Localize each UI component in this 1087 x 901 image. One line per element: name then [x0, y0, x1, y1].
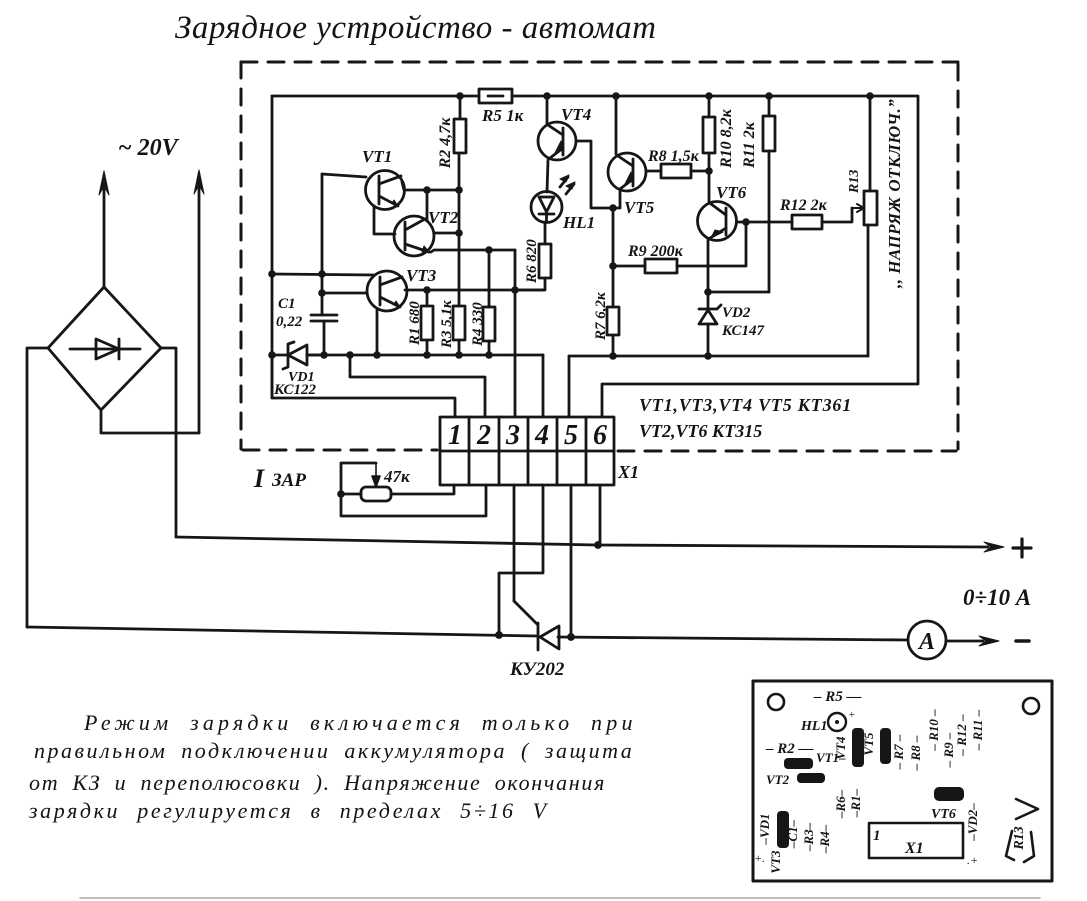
plus output line: [176, 537, 1004, 552]
svg-text:+: +: [848, 709, 855, 721]
svg-text:.+: .+: [967, 853, 978, 867]
svg-text:,, НАПРЯЖ ОТКЛЮЧ.”: ,, НАПРЯЖ ОТКЛЮЧ.”: [885, 99, 904, 289]
transistor VT5: [608, 96, 655, 217]
PCB solder plus marks: [754, 851, 978, 867]
minus line right section with arrow: [947, 636, 999, 646]
AC input arrow left: [99, 171, 109, 287]
wire bridge right vertex down to plus rail: [161, 348, 176, 537]
svg-text:–VD2–: –VD2–: [965, 803, 980, 842]
wire VT6 base to R12: [737, 221, 792, 224]
wire pin5 down to minus line: [570, 485, 573, 637]
wire pin2 from rail: [350, 355, 485, 417]
resistor R12 2k: [779, 197, 852, 229]
svg-text:4: 4: [534, 420, 549, 451]
node R10 top: [705, 92, 713, 100]
node VT1 collector to R2 line: [455, 186, 463, 194]
svg-text:2: 2: [476, 420, 491, 451]
node R11 top: [765, 92, 773, 100]
svg-text:R3 5,1к: R3 5,1к: [439, 300, 455, 349]
minus output line left section: [27, 627, 537, 636]
wire VT3 emitter down to rail: [376, 310, 379, 355]
node R9 riser to VT6 base: [742, 218, 750, 226]
potentiometer 47k: [337, 463, 486, 516]
pin numbers 1-6: [448, 420, 607, 451]
wire VT2 collector up to VT1 collector node: [426, 190, 429, 221]
svg-text:–R6–: –R6–: [833, 789, 848, 819]
potentiometer R13: [847, 96, 877, 356]
svg-text:КУ202: КУ202: [509, 659, 565, 680]
top supply rail: [272, 96, 918, 417]
resistor R10 8,2k: [703, 96, 735, 202]
svg-text:R1 680: R1 680: [407, 301, 423, 346]
PCB pad R2: [784, 758, 813, 769]
svg-text:VТ4: VТ4: [833, 736, 848, 760]
node VD2 bottom: [704, 352, 712, 360]
title Зарядное устройство - автомат: [175, 10, 656, 46]
svg-text:0÷10 А: 0÷10 А: [963, 585, 1031, 610]
node VT3 emitter: [373, 351, 381, 359]
wire pin3 riser: [514, 250, 517, 417]
svg-text:47к: 47к: [383, 467, 410, 486]
svg-text:VТ3: VТ3: [768, 850, 783, 874]
svg-text:VT2: VT2: [766, 772, 790, 787]
wire pin3 down to thyristor gate: [513, 485, 516, 601]
svg-text:–R3–: –R3–: [801, 822, 816, 852]
resistor R6 820: [515, 222, 551, 290]
PCB rotated labels top row: [833, 709, 985, 771]
bridge rectifier: [48, 287, 161, 410]
node R1 top: [423, 286, 431, 294]
node VT2 collector to R2 line: [455, 229, 463, 237]
svg-text:R2 4,7к: R2 4,7к: [437, 117, 454, 170]
svg-text:– R2 ––: – R2 ––: [765, 741, 814, 757]
wire VT2 emitter to pin3 drop: [431, 250, 515, 252]
wiper arrow into R13: [852, 204, 864, 212]
node pin2 riser: [346, 351, 354, 359]
svg-text:R9 200к: R9 200к: [627, 243, 684, 260]
wire VT4 base to R7 node: [576, 141, 613, 208]
node VT6 emitter R11 VD2: [704, 288, 712, 296]
label I ЗАР: [253, 464, 306, 493]
ammeter A: [908, 621, 946, 659]
wire bridge bottom vertex to right AC line: [101, 410, 199, 433]
wire R2 bottom to R3 top: [458, 153, 461, 306]
svg-text:R10 8,2к: R10 8,2к: [718, 108, 735, 169]
svg-text:6: 6: [593, 420, 607, 451]
svg-text:–VD1: –VD1: [757, 813, 772, 845]
PCB pad VT4: [852, 728, 864, 767]
svg-text:HL1: HL1: [800, 719, 827, 734]
wire VT4 emitter to HL1: [547, 160, 548, 192]
node R4 top: [485, 246, 493, 254]
wire VT6 emitter down: [707, 240, 710, 292]
svg-text:правильном подключении аккум: правильном подключении аккумулятора ( за…: [34, 738, 634, 763]
node R13 top: [866, 92, 874, 100]
node R8 R10 VT6 collector: [705, 167, 713, 175]
left vertical supply wire: [271, 96, 274, 398]
node pin5 wire to minus line: [567, 633, 575, 641]
wire pin5 from rail: [568, 356, 571, 417]
PCB mounting hole right: [1023, 698, 1039, 714]
PCB pad VT6: [934, 787, 964, 801]
svg-text:Режим зарядки включается то: Режим зарядки включается только при: [83, 710, 637, 735]
PCB X1 connector outline: [869, 823, 963, 858]
svg-text:А: А: [917, 629, 935, 655]
node left vertical bottom rail: [268, 351, 276, 359]
node R3 bottom: [455, 351, 463, 359]
wire VT5 emitter: [613, 189, 620, 208]
node VT4 collector: [543, 92, 551, 100]
node x322 y293: [318, 289, 326, 297]
transistor VT6: [698, 183, 747, 241]
node pin6 to plus line: [594, 541, 602, 549]
wire pin1 from left vertical: [272, 355, 455, 417]
svg-text:R13: R13: [847, 170, 862, 194]
resistor R11 2k: [741, 96, 775, 292]
wire VT3 collector line to pin3 riser and R6: [405, 289, 544, 292]
svg-text:VT6: VT6: [716, 183, 747, 202]
svg-text:~ 20V: ~ 20V: [118, 135, 180, 161]
resistor R3 5,1k: [439, 300, 465, 355]
bottom rail right piece: [569, 355, 868, 358]
plus sign: [1013, 539, 1031, 557]
LED HL1: [531, 175, 595, 232]
svg-text:КС147: КС147: [721, 323, 764, 339]
svg-text:–C1–: –C1–: [785, 819, 800, 849]
svg-text:VT2,VТ6 КТ315: VT2,VТ6 КТ315: [639, 421, 762, 441]
node R1 bottom: [423, 351, 431, 359]
resistor R5 1k: [479, 89, 524, 125]
wire VT3 upper base line: [272, 274, 375, 275]
svg-text:ЗАР: ЗАР: [271, 470, 306, 491]
dashed enclosure border: [241, 62, 958, 451]
transistor VT3: [367, 266, 437, 311]
bottom rail left piece: [307, 354, 543, 357]
svg-text:3: 3: [505, 420, 520, 451]
node VT5 collector: [612, 92, 620, 100]
node x322 y274: [318, 270, 326, 278]
svg-text:VT3: VT3: [406, 266, 437, 285]
svg-text:X1: X1: [617, 462, 639, 482]
svg-text:от КЗ и переполюсовки ). Нап: от КЗ и переполюсовки ). Напряжение окон…: [29, 770, 606, 795]
node R6 return joins pin3 riser: [511, 286, 519, 294]
svg-text:VТ5: VТ5: [861, 732, 876, 756]
wire VT1 emitter to VT2 base: [374, 206, 395, 234]
svg-text:R8 1,5к: R8 1,5к: [647, 148, 700, 165]
svg-text:– R12 –: – R12 –: [954, 714, 969, 757]
zener diode VD2 KC147: [699, 292, 764, 356]
PCB rotated labels bottom left group: [757, 788, 1027, 873]
svg-text:Зарядное устройство - автомат: Зарядное устройство - автомат: [175, 10, 656, 46]
faint scan line bottom: [80, 897, 1040, 899]
wire VT3 base stub: [322, 292, 367, 295]
svg-text:– R5 ––: – R5 ––: [813, 689, 862, 705]
wire VT1 base: [322, 174, 366, 177]
PCB HL1 ring: [828, 709, 855, 731]
wire pin4 from rail: [542, 355, 545, 417]
node C1 bottom: [320, 351, 328, 359]
node R4 bottom: [485, 351, 493, 359]
capacitor C1 0,22: [276, 296, 337, 355]
svg-text:VT4: VT4: [561, 105, 591, 124]
wire bridge left vertex to minus rail: [27, 348, 48, 627]
svg-text:VT1: VT1: [362, 147, 392, 166]
wire VT5 base to R8: [646, 170, 661, 173]
PCB R13 chevron: [1006, 799, 1038, 862]
wire pin6 down to plus line: [599, 485, 602, 545]
svg-text:R7 6,2к: R7 6,2к: [593, 292, 609, 341]
connector X1: [440, 417, 614, 485]
svg-text:R5 1к: R5 1к: [481, 106, 524, 125]
node R2 top: [456, 92, 464, 100]
resistor R7 6,2k: [593, 208, 619, 356]
node pin4 wire to minus line: [495, 631, 503, 639]
svg-text:– R11 –: – R11 –: [970, 709, 985, 751]
PCB pad VT2: [797, 773, 825, 783]
zener diode VD1 KC122: [272, 342, 321, 398]
transistor VT2: [394, 208, 459, 256]
svg-text:VT5: VT5: [624, 198, 655, 217]
svg-text:VТ6: VТ6: [931, 807, 956, 822]
svg-text:0,22: 0,22: [276, 314, 303, 330]
svg-text:– R7 –: – R7 –: [891, 734, 906, 770]
transistor VT1: [362, 147, 405, 210]
AC input arrow right: [194, 170, 204, 433]
vertical node wire C1 VT1 VT3 bases: [321, 174, 324, 315]
wire R11 bottom to VT6 emitter: [708, 291, 769, 294]
thyristor KU202: [514, 601, 559, 650]
svg-text:–R4–: –R4–: [817, 824, 832, 854]
PCB inset board outline: [753, 681, 1052, 881]
node VT4 base VT5 emitter R7 top: [609, 204, 617, 212]
svg-text:1: 1: [448, 420, 462, 451]
svg-text:+.: +.: [754, 851, 765, 865]
node VT1 collector junction: [423, 186, 431, 194]
svg-text:R12 2к: R12 2к: [779, 197, 828, 214]
svg-text:HL1: HL1: [562, 213, 595, 232]
svg-text:I: I: [253, 464, 265, 493]
resistor R9 200k: [613, 222, 746, 273]
wire VT2 collector right stub: [434, 232, 459, 235]
node R7 bottom: [609, 352, 617, 360]
resistor R8 1,5k: [647, 148, 709, 178]
svg-text:КС122: КС122: [273, 382, 316, 398]
node left vertical VT3 base branch: [268, 270, 276, 278]
wire pin4 down to minus line: [499, 485, 543, 635]
svg-text:–R1–: –R1–: [848, 788, 863, 818]
svg-text:R4 330: R4 330: [470, 302, 486, 347]
svg-text:R13: R13: [1012, 826, 1027, 850]
svg-text:5: 5: [564, 420, 578, 451]
resistor R2 4,7k: [437, 96, 466, 169]
minus sign: [1016, 639, 1029, 643]
minus line mid section: [558, 637, 908, 640]
resistor R4 330: [470, 250, 495, 355]
resistor R1 680: [407, 290, 433, 355]
svg-text:– R8 –: – R8 –: [908, 735, 923, 771]
rotated note напряж отключ: [885, 99, 904, 289]
svg-text:R6 820: R6 820: [524, 239, 540, 284]
svg-text:X1: X1: [904, 840, 924, 857]
wire VT1 collector: [402, 182, 459, 190]
svg-text:VT1,VT3,VТ4 VТ5 КТ361: VT1,VT3,VТ4 VТ5 КТ361: [639, 395, 852, 415]
node R9 left to R7 riser: [609, 262, 617, 270]
svg-text:VD2: VD2: [722, 305, 751, 321]
svg-text:1: 1: [873, 828, 881, 844]
svg-text:VT2: VT2: [428, 208, 459, 227]
PCB pad VD1: [777, 811, 789, 848]
PCB mounting hole left: [768, 694, 784, 710]
svg-text:зарядки регулируется в пред: зарядки регулируется в пределах 5÷16 V: [28, 798, 549, 823]
svg-text:– R10 –: – R10 –: [926, 709, 941, 752]
PCB pad VT5: [880, 728, 891, 764]
svg-text:R11 2к: R11 2к: [741, 121, 758, 169]
transistor VT4: [538, 96, 591, 160]
svg-text:C1: C1: [278, 296, 296, 312]
